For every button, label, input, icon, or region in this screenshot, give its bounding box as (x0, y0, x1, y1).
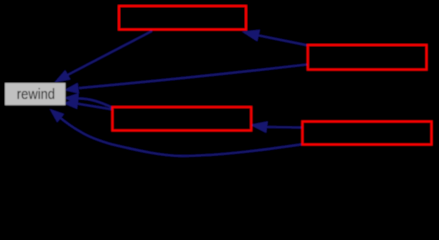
arrowhead C into rewind right edge (65, 94, 78, 104)
node: bottom-right red box (302, 122, 431, 145)
wire G: bottom-right box to middle box (267, 126, 302, 129)
node: right red box (308, 45, 427, 70)
wire A: top box to rewind (68, 31, 153, 75)
node: middle red box (112, 107, 251, 130)
arrowhead G into middle box right edge (252, 122, 268, 132)
arrowhead D into rewind bottom-right corner (64, 99, 77, 109)
node: top red box (119, 6, 246, 30)
node rewind: gray box (5, 83, 65, 105)
wire F: right box to top box (258, 35, 307, 45)
arrowhead A into rewind top (56, 71, 70, 82)
wire E: bottom-right box long curve to rewind bottom (60, 118, 302, 156)
wire C: middle box to rewind (78, 99, 112, 108)
wire B: right box to rewind (79, 65, 307, 89)
wire D: middle box lower line to rewind corner (77, 104, 112, 110)
arrowhead F into top box right corner (243, 30, 259, 41)
svg-text:rewind: rewind (17, 87, 55, 103)
arrowhead B into rewind right edge (65, 84, 78, 94)
arrowhead E into rewind bottom (51, 110, 64, 122)
